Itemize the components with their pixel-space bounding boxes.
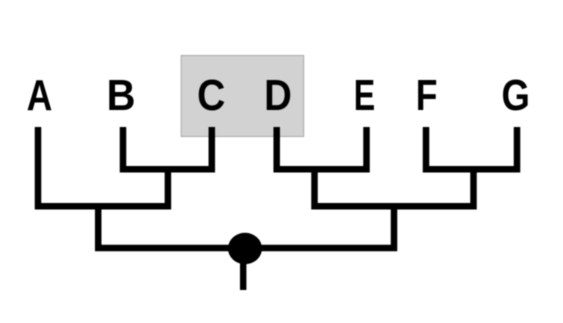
root stem [240,252,246,290]
bracket joining DE and FG [315,169,474,206]
branch A joining clade BC [38,127,168,206]
root node circle [228,233,262,264]
svg-text:G: G [502,71,530,120]
clade bracket F+G [426,127,517,169]
svg-text:E: E [354,71,375,120]
svg-text:C: C [197,71,225,120]
svg-text:D: D [264,71,292,120]
clade bracket D+E [277,127,367,169]
clade bracket B+C [123,127,212,169]
root bar joining left and right clades [98,206,394,248]
svg-text:F: F [416,71,438,120]
highlight box around C and D [181,56,304,137]
svg-text:B: B [107,71,136,120]
svg-text:A: A [27,71,53,120]
